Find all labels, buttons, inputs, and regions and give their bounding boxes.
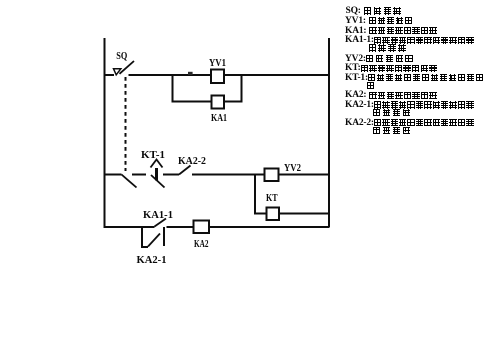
coil KT (on-delay timer relay)	[267, 208, 280, 221]
legend line 1: SQ foot switch	[346, 7, 404, 15]
wire from KT to right rail	[279, 213, 329, 215]
svg-text:YV1: YV1	[209, 58, 226, 69]
wire row3 from left rail to KA1-1	[105, 226, 155, 228]
coil KA1 (first intermediate relay)	[212, 96, 225, 109]
contact KA2-1 blade	[148, 234, 160, 247]
legend line 3: KA1 first intermediate relay	[345, 27, 438, 35]
wire row2 from KA2-2 to YV2	[192, 174, 265, 176]
legend line 2: YV1 down solenoid valve	[345, 17, 414, 25]
svg-text:SQ: SQ	[116, 51, 127, 62]
contact KA1-1 blade	[155, 219, 167, 227]
wire from KA1 to right branch vertical	[224, 75, 242, 102]
right supply rail	[328, 38, 330, 228]
wire row2 from left rail to SQ second contact	[105, 174, 122, 176]
wire KA2-1 branch left vertical	[142, 227, 148, 247]
contact KA2-2 blade	[179, 166, 191, 175]
junction speck on row1 wire	[188, 72, 193, 75]
legend line 7: KT on-delay timer relay	[345, 64, 438, 72]
legend line 13: KA2-2 second group NO contact	[345, 119, 475, 127]
wire row1 from SQ to YV1	[129, 74, 212, 76]
wire branch vertical to KT	[255, 175, 267, 214]
contact KT-1 vertical bar	[155, 168, 158, 181]
switch SQ blade	[120, 61, 135, 74]
legend line 5: NO contact wrap	[369, 44, 409, 52]
legend line 4: KA1-1 first group NO contact	[345, 36, 475, 44]
coil YV1 (down solenoid valve)	[211, 70, 224, 84]
svg-text:KA2-2: KA2-2	[178, 156, 206, 167]
legend line 14: NO contact wrap	[373, 126, 413, 134]
contact KT-1 delay arrow	[151, 160, 163, 168]
wire row1 stub from left rail to SQ	[105, 74, 115, 76]
contact KT-1 blade	[151, 175, 165, 188]
wire row2 from YV2 to right rail	[279, 174, 330, 176]
svg-text:KA2-1: KA2-1	[137, 255, 167, 266]
switch SQ (foot switch) flag symbol	[114, 69, 121, 75]
wire row2 between KT-1 and KA2-2	[163, 174, 179, 176]
legend line 12: NO contact wrap	[373, 109, 413, 117]
svg-text:KT-1: KT-1	[141, 150, 165, 161]
svg-text:KA1: KA1	[211, 113, 227, 124]
wire row2 between SQ contact and KT-1	[132, 174, 146, 176]
wire KA2-1 branch right vertical	[163, 227, 165, 246]
legend line 8: KT-1 delayed-opening NC contact	[345, 74, 485, 82]
coil KA2 (second intermediate relay)	[194, 221, 210, 234]
wire row1 from YV1 to right rail	[224, 74, 329, 76]
switch SQ second contact blade	[122, 175, 137, 188]
legend line 6: YV2 up solenoid valve	[345, 55, 415, 63]
wire row3 from KA2 to right rail	[209, 226, 329, 228]
wire branch vertical left of KA1 parallel group	[173, 75, 213, 102]
svg-text:KT: KT	[266, 193, 278, 204]
left supply rail	[104, 38, 106, 228]
coil YV2 (up solenoid valve)	[265, 169, 279, 182]
legend line 9: contact wrap	[367, 82, 375, 90]
legend line 10: KA2 second intermediate relay	[345, 91, 438, 99]
svg-text:KA2: KA2	[194, 239, 209, 250]
svg-text:KA1-1: KA1-1	[143, 210, 173, 221]
dashed mechanical link from SQ pole 1 to pole 2	[125, 77, 127, 171]
legend line 11: KA2-1 first group NO contact	[345, 101, 475, 109]
wire row3 between KA1-1 and KA2	[167, 226, 194, 228]
svg-text:YV2: YV2	[284, 163, 301, 174]
